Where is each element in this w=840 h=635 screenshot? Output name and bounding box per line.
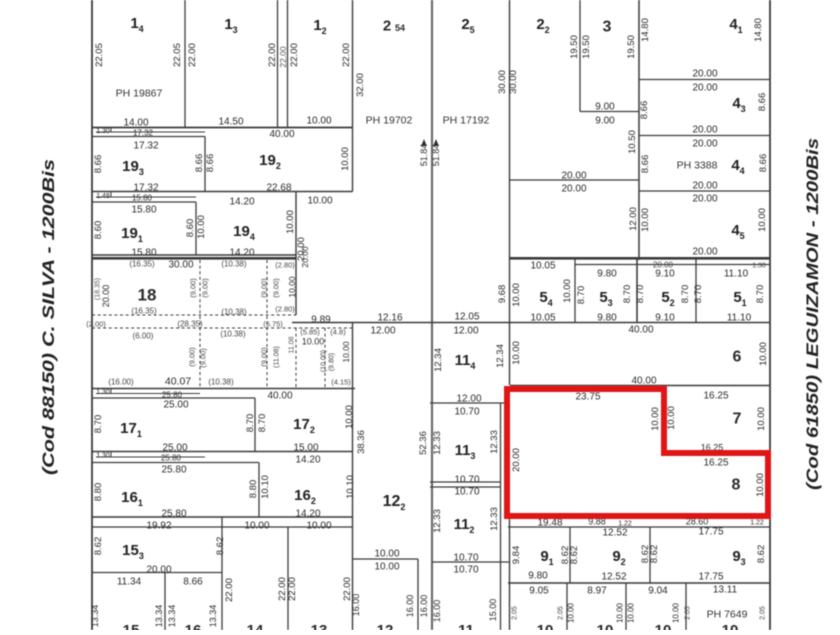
svg-text:3: 3 bbox=[603, 19, 612, 36]
svg-text:9.10: 9.10 bbox=[655, 269, 675, 280]
svg-text:22.00: 22.00 bbox=[278, 46, 288, 68]
svg-text:22.05: 22.05 bbox=[172, 43, 183, 67]
svg-text:14.50: 14.50 bbox=[218, 117, 243, 128]
svg-text:10.00: 10.00 bbox=[650, 407, 661, 431]
svg-text:38.36: 38.36 bbox=[356, 430, 367, 454]
svg-text:25.80: 25.80 bbox=[161, 454, 182, 463]
svg-text:8.62: 8.62 bbox=[649, 545, 660, 564]
svg-text:15.80: 15.80 bbox=[132, 194, 153, 203]
svg-text:8.70: 8.70 bbox=[635, 285, 646, 304]
svg-text:8.66: 8.66 bbox=[205, 154, 216, 173]
svg-text:10: 10 bbox=[655, 622, 672, 630]
svg-text:12: 12 bbox=[377, 622, 394, 630]
svg-text:(5.75): (5.75) bbox=[263, 320, 283, 329]
svg-text:40.00: 40.00 bbox=[631, 376, 656, 387]
svg-text:14.80: 14.80 bbox=[753, 18, 764, 42]
svg-text:(6.00): (6.00) bbox=[133, 332, 154, 341]
svg-text:(10.38): (10.38) bbox=[221, 260, 247, 269]
svg-text:20.00: 20.00 bbox=[146, 565, 171, 576]
svg-text:12.52: 12.52 bbox=[601, 572, 626, 583]
svg-text:30.00: 30.00 bbox=[508, 70, 519, 94]
svg-text:8.60: 8.60 bbox=[185, 219, 196, 238]
svg-text:8.70: 8.70 bbox=[245, 414, 256, 433]
svg-text:9.04: 9.04 bbox=[648, 586, 668, 597]
svg-text:11: 11 bbox=[458, 622, 474, 630]
svg-text:10.00: 10.00 bbox=[341, 341, 351, 363]
svg-text:PH 3388: PH 3388 bbox=[677, 160, 718, 172]
svg-text:9.80: 9.80 bbox=[528, 571, 548, 582]
svg-text:22.00: 22.00 bbox=[289, 43, 300, 67]
svg-text:8.66: 8.66 bbox=[639, 101, 650, 120]
svg-text:(16.35): (16.35) bbox=[131, 307, 157, 316]
svg-text:30.00: 30.00 bbox=[497, 70, 508, 94]
svg-text:10.00: 10.00 bbox=[307, 196, 332, 207]
svg-text:16.25: 16.25 bbox=[701, 443, 724, 453]
svg-text:28.60: 28.60 bbox=[686, 517, 709, 527]
svg-text:19.50: 19.50 bbox=[626, 35, 637, 59]
svg-text:PH 7649: PH 7649 bbox=[707, 609, 748, 621]
svg-text:(16.35): (16.35) bbox=[129, 260, 155, 269]
svg-text:10.10: 10.10 bbox=[260, 475, 271, 499]
svg-text:8.62: 8.62 bbox=[756, 545, 767, 564]
svg-text:8.97: 8.97 bbox=[587, 586, 607, 597]
svg-text:8.62: 8.62 bbox=[215, 537, 226, 556]
svg-text:12.00: 12.00 bbox=[370, 326, 395, 337]
svg-text:9.00: 9.00 bbox=[595, 102, 615, 113]
svg-text:9.10: 9.10 bbox=[655, 313, 675, 324]
svg-text:25.80: 25.80 bbox=[161, 509, 186, 520]
svg-text:10: 10 bbox=[597, 622, 614, 630]
svg-text:14.20: 14.20 bbox=[295, 455, 320, 466]
svg-text:23.75: 23.75 bbox=[575, 392, 600, 403]
svg-text:40.07: 40.07 bbox=[165, 376, 191, 388]
svg-text:12.16: 12.16 bbox=[377, 313, 402, 324]
svg-text:12.00: 12.00 bbox=[456, 394, 481, 405]
svg-text:17.32: 17.32 bbox=[133, 183, 158, 194]
svg-text:(9.00): (9.00) bbox=[260, 278, 269, 298]
svg-text:6: 6 bbox=[733, 349, 742, 366]
svg-text:17.32: 17.32 bbox=[133, 129, 154, 138]
svg-text:10.00: 10.00 bbox=[340, 147, 351, 171]
svg-text:10.00: 10.00 bbox=[511, 283, 522, 307]
svg-text:(10.38): (10.38) bbox=[208, 378, 234, 387]
svg-text:10.70: 10.70 bbox=[454, 407, 479, 418]
svg-text:22.68: 22.68 bbox=[266, 183, 291, 194]
svg-text:20.00: 20.00 bbox=[692, 181, 717, 192]
svg-text:32.00: 32.00 bbox=[355, 73, 366, 97]
svg-text:10: 10 bbox=[722, 622, 739, 630]
svg-text:10.10: 10.10 bbox=[345, 475, 356, 499]
svg-text:10.00: 10.00 bbox=[640, 208, 651, 232]
svg-text:10.00: 10.00 bbox=[666, 406, 677, 430]
svg-text:1.22: 1.22 bbox=[750, 520, 764, 527]
svg-text:12.00: 12.00 bbox=[453, 326, 478, 337]
svg-text:12.33: 12.33 bbox=[489, 430, 500, 454]
svg-text:(9.00): (9.00) bbox=[272, 278, 281, 298]
svg-text:9.80: 9.80 bbox=[597, 269, 617, 280]
svg-text:25.80: 25.80 bbox=[161, 465, 186, 476]
svg-text:10.00: 10.00 bbox=[756, 407, 767, 431]
svg-text:12.34: 12.34 bbox=[433, 348, 444, 372]
svg-text:40.00: 40.00 bbox=[267, 391, 292, 402]
svg-text:1.30: 1.30 bbox=[96, 128, 110, 135]
svg-text:(9.00): (9.00) bbox=[189, 278, 198, 298]
svg-text:12.33: 12.33 bbox=[489, 507, 500, 531]
svg-text:(9.80): (9.80) bbox=[328, 353, 335, 371]
svg-text:10.00: 10.00 bbox=[627, 602, 636, 623]
svg-text:15: 15 bbox=[123, 622, 140, 630]
svg-text:10.05: 10.05 bbox=[530, 313, 555, 324]
svg-text:(10.38): (10.38) bbox=[221, 308, 247, 317]
svg-text:(Cod 88150) C. SILVA - 12: (Cod 88150) C. SILVA - 1200Bis bbox=[39, 159, 58, 475]
svg-text:10.00: 10.00 bbox=[672, 602, 681, 623]
svg-text:PH 19702: PH 19702 bbox=[366, 115, 413, 127]
svg-text:11.10: 11.10 bbox=[724, 269, 749, 280]
svg-text:9.84: 9.84 bbox=[511, 546, 522, 565]
svg-text:(9.00): (9.00) bbox=[199, 348, 208, 368]
svg-text:10.00: 10.00 bbox=[616, 602, 625, 623]
svg-text:22.00: 22.00 bbox=[224, 578, 235, 602]
svg-text:40.00: 40.00 bbox=[269, 129, 294, 140]
svg-text:8.62: 8.62 bbox=[569, 546, 580, 565]
svg-text:14.80: 14.80 bbox=[640, 18, 651, 42]
svg-text:8.66: 8.66 bbox=[758, 154, 769, 173]
svg-text:40.00: 40.00 bbox=[628, 325, 653, 336]
svg-text:10.70: 10.70 bbox=[454, 487, 479, 498]
svg-text:(2.00): (2.00) bbox=[86, 320, 106, 329]
svg-text:54: 54 bbox=[395, 23, 405, 33]
svg-text:10.00: 10.00 bbox=[302, 337, 325, 347]
svg-text:10.70: 10.70 bbox=[453, 565, 478, 576]
svg-text:12.33: 12.33 bbox=[432, 431, 443, 455]
svg-text:10.05: 10.05 bbox=[530, 261, 555, 272]
svg-text:10.00: 10.00 bbox=[196, 215, 207, 239]
svg-text:(4.8): (4.8) bbox=[330, 328, 346, 337]
svg-text:20.00: 20.00 bbox=[692, 139, 717, 150]
svg-text:8.70: 8.70 bbox=[755, 285, 766, 304]
svg-text:(2.80): (2.80) bbox=[275, 305, 295, 314]
svg-text:22.00: 22.00 bbox=[287, 577, 298, 601]
svg-text:10.50: 10.50 bbox=[627, 130, 638, 154]
svg-text:20.00: 20.00 bbox=[692, 83, 717, 94]
svg-text:17.75: 17.75 bbox=[698, 572, 723, 583]
svg-text:9.88: 9.88 bbox=[588, 517, 606, 527]
svg-text:8.80: 8.80 bbox=[93, 483, 104, 502]
svg-text:13: 13 bbox=[311, 622, 328, 630]
svg-text:20.00: 20.00 bbox=[561, 171, 586, 182]
svg-text:14.20: 14.20 bbox=[229, 197, 254, 208]
svg-text:15.00: 15.00 bbox=[293, 443, 318, 454]
svg-text:17.75: 17.75 bbox=[698, 527, 723, 538]
svg-text:8.70: 8.70 bbox=[693, 285, 704, 304]
svg-text:1.30: 1.30 bbox=[96, 389, 110, 396]
svg-text:(10.00): (10.00) bbox=[320, 350, 327, 372]
svg-text:52.36: 52.36 bbox=[418, 431, 429, 455]
svg-text:16.25: 16.25 bbox=[703, 391, 728, 402]
svg-text:16: 16 bbox=[185, 622, 202, 630]
svg-text:13.34: 13.34 bbox=[208, 605, 218, 628]
svg-text:20.00: 20.00 bbox=[101, 285, 111, 308]
svg-text:16.00: 16.00 bbox=[432, 600, 442, 623]
svg-text:22.05: 22.05 bbox=[94, 43, 105, 67]
svg-text:11.08: 11.08 bbox=[288, 336, 295, 353]
svg-text:10.70: 10.70 bbox=[453, 553, 478, 564]
svg-text:20.00: 20.00 bbox=[511, 448, 522, 472]
svg-text:15.00: 15.00 bbox=[488, 599, 498, 622]
svg-text:10.70: 10.70 bbox=[454, 475, 479, 486]
svg-text:8.70: 8.70 bbox=[680, 285, 691, 304]
svg-text:8.70: 8.70 bbox=[622, 285, 633, 304]
svg-text:12.00: 12.00 bbox=[628, 207, 639, 231]
svg-text:2.05: 2.05 bbox=[557, 606, 564, 620]
svg-text:13.34: 13.34 bbox=[154, 605, 164, 628]
svg-text:10.00: 10.00 bbox=[287, 276, 297, 298]
svg-text:17.32: 17.32 bbox=[133, 141, 158, 152]
svg-text:(28.35): (28.35) bbox=[177, 320, 203, 329]
svg-text:13.34: 13.34 bbox=[167, 605, 177, 628]
svg-text:2.05: 2.05 bbox=[511, 606, 518, 620]
svg-text:2: 2 bbox=[383, 18, 391, 35]
svg-text:8.62: 8.62 bbox=[93, 537, 104, 556]
svg-text:10.00: 10.00 bbox=[244, 521, 269, 532]
svg-text:11.10: 11.10 bbox=[727, 313, 752, 324]
svg-text:22.00: 22.00 bbox=[267, 43, 278, 67]
svg-text:20.00: 20.00 bbox=[692, 69, 717, 80]
svg-text:20.00: 20.00 bbox=[300, 246, 310, 268]
svg-text:22.00: 22.00 bbox=[187, 43, 198, 67]
svg-text:10.00: 10.00 bbox=[567, 602, 576, 623]
svg-text:(10.38): (10.38) bbox=[220, 330, 246, 339]
svg-text:8.66: 8.66 bbox=[183, 577, 203, 588]
svg-text:12.52: 12.52 bbox=[602, 528, 627, 539]
svg-text:(4.15): (4.15) bbox=[331, 378, 351, 387]
svg-text:8.66: 8.66 bbox=[93, 155, 104, 174]
svg-text:20.00: 20.00 bbox=[692, 194, 717, 205]
svg-text:10.00: 10.00 bbox=[755, 473, 766, 497]
svg-text:13.34: 13.34 bbox=[90, 605, 100, 628]
svg-text:8.60: 8.60 bbox=[93, 221, 104, 240]
svg-text:16.00: 16.00 bbox=[405, 595, 415, 618]
svg-text:(Cod 61850) LEGUIZAMON - 1: (Cod 61850) LEGUIZAMON - 1200Bis bbox=[803, 138, 822, 490]
svg-text:18: 18 bbox=[138, 286, 157, 305]
svg-text:7: 7 bbox=[733, 411, 742, 428]
svg-text:1.30: 1.30 bbox=[96, 453, 110, 460]
svg-text:10.00: 10.00 bbox=[562, 279, 573, 303]
svg-text:16.25: 16.25 bbox=[703, 458, 728, 469]
svg-text:(11.08): (11.08) bbox=[273, 346, 280, 368]
svg-text:25.00: 25.00 bbox=[163, 400, 188, 411]
svg-text:11.34: 11.34 bbox=[117, 577, 142, 588]
svg-text:9.05: 9.05 bbox=[529, 586, 549, 597]
svg-text:(9.00): (9.00) bbox=[260, 347, 269, 367]
svg-text:PH 19867: PH 19867 bbox=[116, 88, 163, 100]
svg-text:8.70: 8.70 bbox=[257, 414, 268, 433]
svg-text:(9.00): (9.00) bbox=[201, 278, 210, 298]
svg-text:9.89: 9.89 bbox=[311, 315, 331, 326]
svg-text:14.20: 14.20 bbox=[295, 509, 320, 520]
svg-text:14.00: 14.00 bbox=[123, 118, 148, 129]
svg-text:19.50: 19.50 bbox=[569, 35, 580, 59]
svg-text:12.34: 12.34 bbox=[495, 344, 506, 368]
svg-text:51.84: 51.84 bbox=[431, 144, 441, 167]
svg-text:10.00: 10.00 bbox=[757, 208, 768, 232]
svg-text:8.66: 8.66 bbox=[757, 93, 768, 112]
svg-text:2.05: 2.05 bbox=[759, 606, 766, 620]
svg-text:10.00: 10.00 bbox=[285, 210, 296, 234]
svg-text:(16.00): (16.00) bbox=[108, 378, 134, 387]
svg-text:25.00: 25.00 bbox=[162, 443, 187, 454]
svg-text:(9.00): (9.00) bbox=[188, 347, 197, 367]
svg-text:12.33: 12.33 bbox=[432, 509, 443, 533]
svg-text:8.80: 8.80 bbox=[248, 480, 259, 499]
svg-text:9.00: 9.00 bbox=[595, 116, 615, 127]
svg-text:20.00: 20.00 bbox=[561, 184, 586, 195]
svg-text:20.00: 20.00 bbox=[692, 125, 717, 136]
svg-text:16.00: 16.00 bbox=[351, 594, 361, 617]
svg-text:30.00: 30.00 bbox=[168, 260, 193, 271]
svg-text:14: 14 bbox=[247, 622, 264, 630]
svg-text:8.70: 8.70 bbox=[576, 286, 587, 305]
svg-text:10.00: 10.00 bbox=[306, 116, 331, 127]
svg-text:10.00: 10.00 bbox=[758, 342, 769, 366]
svg-text:13.11: 13.11 bbox=[713, 585, 738, 596]
svg-text:15.80: 15.80 bbox=[131, 248, 156, 259]
svg-text:(5.85): (5.85) bbox=[300, 328, 320, 337]
svg-text:10: 10 bbox=[537, 622, 554, 630]
svg-text:10.00: 10.00 bbox=[374, 549, 399, 560]
svg-text:12.05: 12.05 bbox=[454, 312, 479, 323]
svg-text:10.00: 10.00 bbox=[306, 521, 331, 532]
svg-text:10.00: 10.00 bbox=[344, 405, 355, 429]
svg-text:9.80: 9.80 bbox=[597, 313, 617, 324]
svg-text:2.05: 2.05 bbox=[684, 606, 691, 620]
svg-text:8.66: 8.66 bbox=[640, 155, 651, 174]
svg-text:19.48: 19.48 bbox=[537, 518, 562, 529]
svg-text:14.20: 14.20 bbox=[229, 248, 254, 259]
svg-text:25.80: 25.80 bbox=[162, 391, 183, 400]
svg-text:10.00: 10.00 bbox=[511, 341, 522, 365]
svg-text:1.22: 1.22 bbox=[618, 521, 632, 528]
svg-text:8.66: 8.66 bbox=[194, 154, 205, 173]
svg-text:20.00: 20.00 bbox=[692, 247, 717, 258]
svg-text:8.70: 8.70 bbox=[93, 415, 104, 434]
svg-text:19.50: 19.50 bbox=[581, 35, 592, 59]
svg-text:9.68: 9.68 bbox=[497, 285, 508, 304]
svg-text:1.48: 1.48 bbox=[96, 193, 110, 200]
svg-text:22.00: 22.00 bbox=[341, 43, 352, 67]
svg-text:10.00: 10.00 bbox=[374, 562, 399, 573]
svg-text:PH 17192: PH 17192 bbox=[443, 115, 490, 127]
svg-text:19.92: 19.92 bbox=[146, 521, 171, 532]
svg-text:1.30: 1.30 bbox=[752, 263, 766, 270]
svg-text:15.80: 15.80 bbox=[131, 205, 156, 216]
svg-text:(2.80): (2.80) bbox=[275, 261, 295, 270]
svg-text:51.84: 51.84 bbox=[419, 144, 429, 167]
svg-text:8: 8 bbox=[732, 477, 741, 494]
svg-text:16.00: 16.00 bbox=[419, 595, 429, 618]
